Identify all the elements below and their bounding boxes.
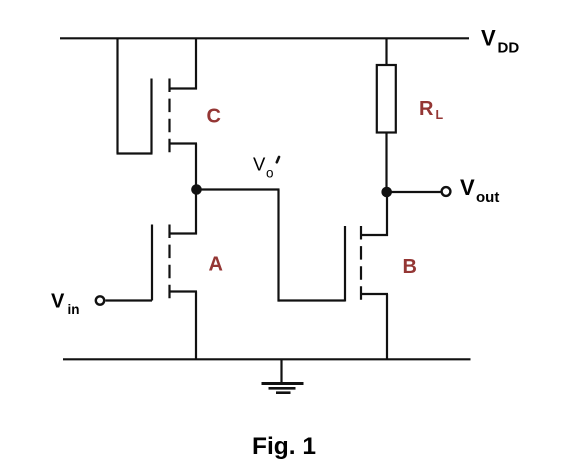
svg-text:out: out [476,189,499,206]
svg-text:in: in [68,302,80,317]
svg-text:V: V [481,26,496,51]
svg-text:DD: DD [498,40,520,57]
svg-text:o: o [266,166,274,181]
svg-text:V: V [253,154,266,175]
svg-text:V: V [51,291,65,313]
svg-text:L: L [436,108,444,122]
svg-text:B: B [403,256,417,278]
svg-text:A: A [209,253,223,275]
svg-text:C: C [207,105,221,127]
svg-text:R: R [419,98,434,120]
svg-text:V: V [460,175,475,200]
svg-text:Fig. 1: Fig. 1 [252,433,316,460]
